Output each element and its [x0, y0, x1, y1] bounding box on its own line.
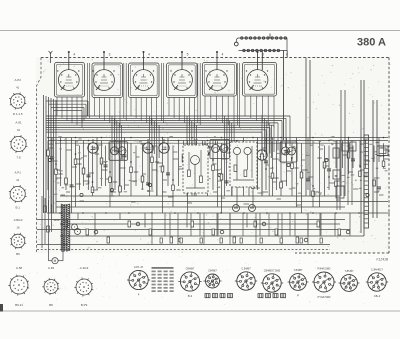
- dashed border bottom-right: [295, 252, 389, 254]
- scan artifact bottom-left: [0, 304, 3, 312]
- IF transformer can 280: [280, 142, 297, 162]
- svg-text:B9.21: B9.21: [15, 303, 23, 307]
- tube V93: [88, 139, 98, 153]
- socket diagram L2: [10, 120, 28, 159]
- tube V205: [200, 141, 210, 155]
- tube V164: [159, 139, 169, 153]
- tube box B5: [203, 51, 237, 96]
- svg-text:5: 5: [187, 53, 189, 57]
- tube box B6: [243, 51, 277, 96]
- bottom socket 1: [127, 265, 150, 297]
- dial lamp chain: [239, 38, 288, 51]
- tube box B1: [55, 51, 85, 97]
- svg-text:3: 3: [109, 53, 111, 57]
- svg-text:380 A: 380 A: [357, 37, 386, 49]
- voltage divider strip: [364, 135, 369, 228]
- socket diagram BL3: [74, 266, 93, 307]
- svg-text:C.84/4017: C.84/4017: [371, 267, 384, 271]
- svg-text:D.1.4.5: D.1.4.5: [13, 112, 23, 116]
- svg-text:A.58: A.58: [16, 266, 23, 270]
- band top bus lines: [48, 138, 388, 144]
- svg-text:C84/B7: C84/B7: [186, 266, 195, 270]
- socket diagram BL1: [8, 266, 29, 307]
- connector comb glyphs: [205, 294, 286, 298]
- svg-text:F.1241B: F.1241B: [376, 258, 389, 262]
- dashed section box 1: [183, 145, 208, 193]
- svg-text:7.84/B7: 7.84/B7: [294, 268, 303, 272]
- dashed border top: [41, 57, 389, 59]
- svg-text:110P: 110P: [53, 218, 59, 222]
- svg-text:M: M: [54, 259, 57, 263]
- left nest connectors: [46, 101, 88, 123]
- svg-text:A.P1.47: A.P1.47: [134, 265, 144, 269]
- antenna entry tick: [50, 53, 52, 63]
- power transformer T1: [61, 204, 70, 252]
- bottom page rule: [0, 310, 400, 312]
- tube box B2: [92, 51, 123, 98]
- rectifier tube small 1: [233, 205, 240, 212]
- tube V148: [143, 139, 153, 153]
- dashed border left: [37, 58, 42, 253]
- svg-text:16: 16: [16, 226, 20, 230]
- left vertical wire bundle: [44, 95, 57, 213]
- bottom socket 5: [261, 268, 283, 292]
- svg-text:A.BG3: A.BG3: [14, 218, 23, 222]
- svg-text:B-3: B-3: [188, 294, 193, 298]
- svg-text:A.81: A.81: [15, 120, 22, 124]
- svg-text:P.84/6.5M2: P.84/6.5M2: [318, 267, 331, 271]
- loudspeaker: [377, 146, 388, 156]
- wire chain drop 2: [283, 51, 285, 141]
- IF transformer can 210: [210, 140, 230, 159]
- right vertical wires: [306, 58, 377, 237]
- switch contacts: [72, 224, 78, 230]
- svg-text:P: P: [297, 293, 299, 297]
- svg-text:41: 41: [16, 85, 20, 89]
- svg-text:B.1: B.1: [15, 206, 20, 210]
- left feeder wires: [42, 196, 52, 248]
- svg-text:4: 4: [148, 53, 150, 57]
- IF transformer can 109: [109, 142, 128, 161]
- bottom socket 3: [204, 269, 222, 289]
- bottom socket 7: [312, 267, 336, 300]
- svg-text:91: 91: [17, 128, 21, 132]
- svg-text:A.3G3: A.3G3: [80, 266, 89, 270]
- pilot lamp M: [49, 236, 64, 264]
- lower bus lines: [37, 196, 390, 250]
- top page rule: [0, 30, 400, 32]
- socket diagram L1: [9, 78, 26, 116]
- tube box B4: [167, 51, 198, 98]
- svg-text:7.8: 7.8: [16, 156, 21, 160]
- socket diagram L3: [9, 170, 27, 209]
- tube box B3: [129, 51, 160, 98]
- socket diagram L4: [10, 218, 26, 256]
- svg-text:3: 3: [262, 53, 264, 57]
- scan noise: [23, 57, 390, 305]
- svg-text:B.P9: B.P9: [81, 303, 88, 307]
- tube V262: [257, 146, 267, 160]
- component network: [47, 137, 390, 213]
- wire chain drop 3: [269, 34, 271, 39]
- right component cluster: [333, 140, 356, 210]
- socket diagram BL2: [42, 266, 59, 307]
- tube V250: [245, 170, 255, 184]
- bottom socket 4: [235, 266, 257, 290]
- svg-text:C.84/B7: C.84/B7: [241, 266, 251, 270]
- bottom socket 8: [339, 269, 360, 291]
- svg-text:A.P2: A.P2: [14, 78, 21, 82]
- svg-text:C84/B7: C84/B7: [208, 269, 217, 273]
- svg-text:B8: B8: [49, 303, 53, 307]
- svg-text:PYH6.5M2: PYH6.5M2: [318, 295, 332, 299]
- tiny value labels: [51, 136, 387, 195]
- svg-text:7.85.B7: 7.85.B7: [345, 269, 354, 273]
- svg-text:4: 4: [222, 53, 224, 57]
- descending wire bundles: [112, 116, 272, 196]
- box drop wires: [57, 96, 274, 128]
- svg-text:41: 41: [16, 178, 20, 182]
- wire chain drop 1: [261, 51, 263, 71]
- dashed section box 2: [230, 142, 257, 187]
- svg-text:C84/BG7.5M2: C84/BG7.5M2: [264, 268, 281, 272]
- bottom socket 6: [288, 268, 309, 297]
- rectifier tube small 2: [249, 205, 256, 212]
- main horizontal wire bundle: [46, 116, 290, 157]
- svg-text:C8+3: C8+3: [374, 294, 381, 298]
- dashed border right: [388, 58, 390, 254]
- bottom socket 2: [178, 266, 201, 298]
- svg-text:A.P1: A.P1: [14, 170, 21, 174]
- svg-text:4: 4: [73, 53, 75, 57]
- svg-text:B6: B6: [16, 252, 20, 256]
- voltage table: [152, 267, 174, 292]
- inter-box wires: [87, 63, 239, 128]
- bottom socket 9: [366, 267, 388, 298]
- svg-text:A.83: A.83: [48, 266, 55, 270]
